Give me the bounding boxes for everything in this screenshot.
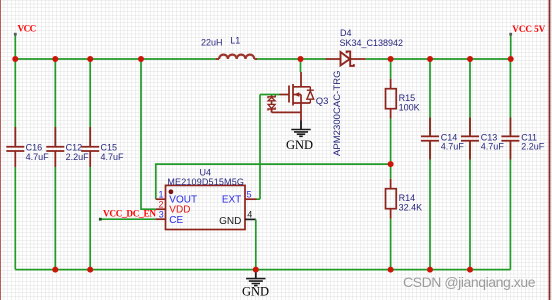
svg-text:4.7uF: 4.7uF: [481, 142, 505, 152]
svg-text:2.2uF: 2.2uF: [521, 142, 545, 152]
ground symbol under Q3: [286, 121, 313, 152]
svg-text:D4: D4: [340, 28, 352, 38]
IC U4 ME2109D515M5G: [156, 168, 257, 230]
svg-text:VCC_DC_EN: VCC_DC_EN: [103, 209, 156, 219]
junction VCC rail / C16: [12, 56, 18, 62]
svg-text:GND: GND: [219, 216, 241, 227]
svg-text:GND: GND: [286, 138, 313, 152]
source stub: [293, 102, 310, 104]
pin 5 EXT stub: [245, 198, 257, 200]
pin1 marker dot: [169, 189, 174, 194]
channel bar: [292, 84, 294, 106]
svg-text:22uH: 22uH: [201, 38, 223, 48]
wire top rail right segment (D4 cathode to VCC 5V): [366, 58, 511, 60]
capacitor C13: [461, 59, 504, 270]
source lead down: [300, 103, 302, 121]
capacitor C12: [46, 59, 89, 270]
svg-text:4.7uF: 4.7uF: [101, 152, 125, 162]
U4 box: [166, 185, 246, 229]
gate bar: [288, 86, 290, 103]
drain stub: [293, 86, 310, 88]
capacitor C15: [81, 59, 124, 270]
svg-text:100K: 100K: [399, 102, 420, 112]
svg-text:4: 4: [247, 210, 252, 220]
svg-text:2: 2: [158, 199, 163, 209]
svg-text:VCC: VCC: [18, 24, 37, 34]
wire top rail left segment: [15, 58, 215, 60]
pin 2 VDD stub: [156, 208, 166, 210]
svg-text:2.2uF: 2.2uF: [66, 152, 90, 162]
svg-text:32.4K: 32.4K: [399, 202, 423, 212]
svg-text:U4: U4: [200, 168, 212, 178]
junction switch node / Q3 drain: [298, 56, 304, 62]
resistor R14: [386, 164, 423, 270]
vertical joining middle+source: [300, 95, 302, 104]
svg-text:SK34_C138942: SK34_C138942: [340, 38, 404, 48]
wire top rail mid segment (L1 right to D4 anode): [257, 58, 326, 60]
junction VCC5V rail / C13: [467, 56, 473, 62]
junction GND rail / R14: [388, 267, 394, 273]
junction VCC5V rail / R15: [388, 56, 394, 62]
net label VCC_DC_EN with wire: [99, 209, 156, 221]
capacitor C14: [421, 59, 464, 270]
pin 3 CE stub: [156, 218, 166, 220]
junction VCC5V rail / C14: [427, 56, 433, 62]
svg-text:1: 1: [158, 189, 163, 199]
svg-text:4.7uF: 4.7uF: [441, 142, 465, 152]
power flag VCC: [14, 24, 36, 59]
pin 4 GND stub: [245, 218, 256, 220]
capacitor C11: [501, 59, 544, 270]
junction GND rail / C14: [427, 267, 433, 273]
zener pair gate protection: [271, 95, 273, 97]
svg-text:Q3: Q3: [316, 96, 329, 107]
svg-text:GND: GND: [242, 284, 269, 298]
svg-text:L1: L1: [230, 35, 240, 45]
junction VCC5V rail / C11: [508, 56, 514, 62]
gate pin lead: [280, 94, 290, 96]
svg-text:3: 3: [159, 210, 164, 220]
capacitor C16: [6, 59, 49, 270]
body diode: [307, 87, 314, 103]
power flag VCC 5V: [509, 24, 545, 59]
junction GND rail / C15: [87, 267, 93, 273]
junction GND rail / U4 GND pin: [253, 267, 259, 273]
transistor Q3 (NMOS with body diode): [268, 59, 343, 156]
svg-text:5: 5: [247, 189, 252, 199]
junction VCC rail / C12: [52, 56, 58, 62]
inductor L1: [201, 35, 257, 59]
junction feedback node R15/R14/VOUT: [388, 161, 394, 167]
wire bottom GND rail: [15, 269, 510, 271]
junction VCC rail / C15: [87, 56, 93, 62]
svg-text:ME2109D515M5G: ME2109D515M5G: [167, 177, 244, 187]
junction GND rail / C12: [52, 267, 58, 273]
wire VDD from top rail: [141, 59, 156, 209]
zener to source wire: [272, 109, 301, 112]
ground symbol bottom: [242, 270, 269, 299]
sheet frame left line: [0, 0, 2, 300]
svg-text:4.7uF: 4.7uF: [26, 152, 50, 162]
junction GND rail / C13: [467, 267, 473, 273]
wire pin4 GND down to rail: [255, 219, 257, 269]
svg-text:VCC 5V: VCC 5V: [512, 24, 545, 34]
pin 1 VOUT stub: [156, 198, 166, 200]
wire feedback VOUT to divider: [156, 164, 391, 199]
middle (body) stub with arrow: [293, 94, 301, 96]
diode D4 (schottky): [326, 28, 404, 66]
svg-text:EXT: EXT: [222, 195, 241, 206]
junction VCC rail / VDD branch: [138, 56, 144, 62]
sheet frame right line: [549, 0, 551, 300]
wire gate to EXT vertical: [257, 95, 280, 200]
svg-text:CSDN @jianqiang.xue: CSDN @jianqiang.xue: [403, 274, 536, 290]
svg-text:APM2300CAC-TRG: APM2300CAC-TRG: [332, 71, 343, 157]
svg-text:CE: CE: [169, 215, 183, 226]
wire drain from rail: [300, 59, 302, 72]
resistor R15: [386, 59, 420, 164]
